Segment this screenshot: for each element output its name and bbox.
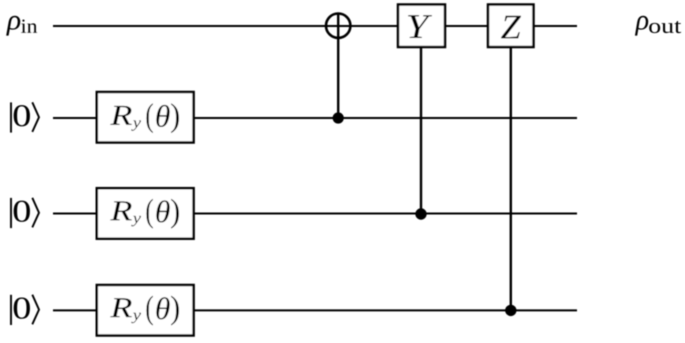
label rho (rho_in) — [6, 16, 20, 36]
wire q1 — [53, 117, 577, 119]
label subscript in — [21, 20, 37, 33]
label Ry(theta) wire at y=118 — [110, 103, 179, 133]
label subscript out — [649, 21, 681, 33]
control dot q3 — [505, 305, 516, 316]
wire q0 (top qubit rho_in) — [53, 25, 577, 27]
wire CNOT vertical control line — [337, 13, 339, 118]
wire q2 — [53, 213, 577, 215]
gate box Ry(theta) q1 — [97, 92, 194, 143]
control dot q2 — [415, 208, 426, 219]
gate box Z — [488, 5, 534, 48]
gate box Y — [398, 5, 445, 48]
wire controlled-Z vertical line — [510, 47, 512, 310]
wire q3 — [53, 309, 577, 311]
ket |0> wire at y=213.5 — [11, 198, 39, 228]
label Ry(theta) wire at y=213.5 — [110, 199, 179, 229]
label rho (rho_out) — [635, 16, 648, 36]
wire controlled-Y vertical line — [420, 47, 422, 214]
ket |0> wire at y=310.4 — [11, 295, 39, 325]
control dot q1 — [333, 112, 344, 123]
label Ry(theta) wire at y=310.4 — [110, 296, 179, 326]
label Z — [501, 16, 521, 39]
gate box Ry(theta) q2 — [97, 188, 194, 239]
CNOT target circle — [326, 14, 350, 38]
label Y — [408, 15, 432, 38]
ket |0> wire at y=118 — [11, 102, 39, 132]
gate box Ry(theta) q3 — [97, 285, 194, 336]
